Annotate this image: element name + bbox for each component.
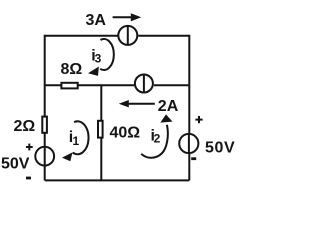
- svg-text:2: 2: [154, 131, 161, 145]
- svg-text:2Ω: 2Ω: [14, 118, 36, 135]
- voltage source 50V left (circle on wire): [35, 147, 54, 166]
- voltage source 50V right (circle on wire): [179, 134, 198, 153]
- svg-text:3: 3: [95, 52, 102, 66]
- minus sign left source: [26, 177, 31, 180]
- svg-text:3A: 3A: [86, 12, 107, 29]
- 2A direction arrow: [119, 100, 155, 107]
- wire bottom horizontal: [45, 179, 190, 181]
- wire middle horizontal (second rail): [45, 84, 190, 86]
- wire top horizontal: [45, 35, 190, 37]
- mesh current i3 arc arrow: [88, 39, 114, 76]
- svg-text:1: 1: [73, 134, 80, 148]
- 3A direction arrow: [113, 13, 142, 21]
- svg-text:50V: 50V: [1, 156, 30, 173]
- plus sign right source: [195, 116, 202, 123]
- current source 3A (circle with vertical bar): [118, 26, 137, 45]
- svg-text:8Ω: 8Ω: [61, 61, 83, 78]
- wire left vertical: [44, 35, 46, 181]
- wire right vertical: [188, 35, 190, 181]
- current source 2A (circle with vertical bar): [135, 75, 153, 93]
- mesh current i1 arc arrow: [62, 121, 89, 161]
- mesh current i2 arc arrow: [141, 114, 172, 157]
- plus sign left source: [26, 144, 33, 151]
- resistor 2ohm (vertical box): [42, 117, 47, 133]
- svg-text:40Ω: 40Ω: [110, 124, 141, 141]
- svg-text:50V: 50V: [205, 139, 235, 156]
- resistor 40ohm (vertical box): [98, 121, 103, 138]
- svg-text:2A: 2A: [158, 98, 179, 115]
- resistor 8ohm (horizontal box): [61, 83, 77, 89]
- wire middle vertical branch: [100, 85, 102, 180]
- minus sign right source: [191, 157, 196, 160]
